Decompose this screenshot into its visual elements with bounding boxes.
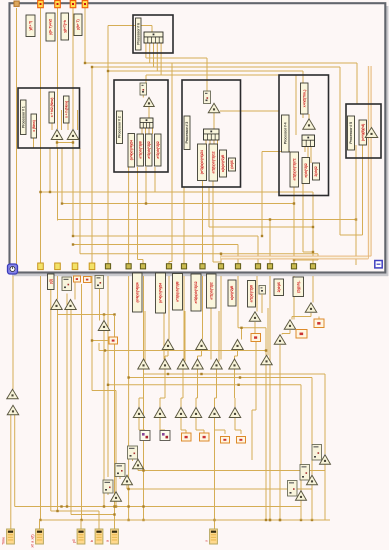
svg-text:a*2(b(xh)*3)/12: a*2(b(xh)*3)/12 bbox=[194, 281, 198, 303]
svg-text:a*2(xh)*2)/8: a*2(xh)*2)/8 bbox=[250, 285, 254, 302]
svg-text:a(b(xh)*2)/8: a(b(xh)*2)/8 bbox=[221, 155, 225, 172]
svg-text:x + h/2 (New): x + h/2 (New) bbox=[50, 97, 54, 117]
svg-text:x+h/2(Tim..): x+h/2(Tim..) bbox=[302, 89, 306, 108]
svg-text:y[i]: y[i] bbox=[49, 279, 53, 284]
svg-text:Processor # 1: Processor # 1 bbox=[21, 106, 25, 128]
svg-text:a*2(b(xh)*3)/12: a*2(b(xh)*3)/12 bbox=[211, 151, 215, 173]
svg-text:(a*4(xh)*4)/24: (a*4(xh)*4)/24 bbox=[159, 283, 163, 303]
svg-text:(a*4(xh)*4)/24: (a*4(xh)*4)/24 bbox=[135, 282, 139, 302]
svg-text:x + h (New): x + h (New) bbox=[64, 100, 68, 118]
svg-text:a*2(xh)*2)/2: a*2(xh)*2)/2 bbox=[209, 282, 213, 299]
svg-text:2(xh)/6: 2(xh)/6 bbox=[277, 282, 281, 292]
svg-text:(a*4(xh)*4)/24: (a*4(xh)*4)/24 bbox=[129, 140, 133, 160]
svg-text:(a*3)(b(xh)*4)/24: (a*3)(b(xh)*4)/24 bbox=[200, 150, 204, 174]
svg-text:y(t+T)+h: y(t+T)+h bbox=[63, 20, 67, 33]
svg-text:Processor # 3: Processor # 3 bbox=[185, 122, 189, 144]
svg-text:Processor # 6: Processor # 6 bbox=[136, 23, 140, 45]
svg-text:x: x bbox=[205, 540, 209, 542]
svg-text:a*2(b(xh)*3)/72: a*2(b(xh)*3)/72 bbox=[292, 158, 296, 180]
svg-text:y0: y0 bbox=[72, 539, 76, 543]
svg-text:a(xh)*2)/8: a(xh)*2)/8 bbox=[230, 286, 234, 300]
svg-text:2(xh)/2: 2(xh)/2 bbox=[314, 166, 318, 176]
svg-text:a*2(xh)*2)/2: a*2(xh)*2)/2 bbox=[156, 141, 160, 158]
svg-text:Time: Time bbox=[2, 537, 6, 545]
svg-text:a*3(b(xh)*3)/8: a*3(b(xh)*3)/8 bbox=[176, 281, 180, 301]
svg-text:x0 a x(t): x0 a x(t) bbox=[31, 534, 35, 547]
svg-text:y(t+ T)+h/2: y(t+ T)+h/2 bbox=[49, 19, 53, 35]
svg-text:y(t+ T): y(t+ T) bbox=[29, 20, 33, 30]
svg-text:y(h+ T): y(h+ T) bbox=[76, 19, 80, 30]
svg-text:x (New): x (New) bbox=[32, 119, 36, 131]
svg-text:Processor # 4: Processor # 4 bbox=[283, 122, 287, 145]
svg-text:b: b bbox=[90, 540, 94, 542]
svg-text:(xh)/6: (xh)/6 bbox=[230, 160, 234, 169]
svg-text:a*2(xh)*2)/2: a*2(xh)*2)/2 bbox=[147, 141, 151, 158]
svg-text:Processor # 5: Processor # 5 bbox=[349, 122, 353, 144]
svg-text:a*3(xh)*3)/8: a*3(xh)*3)/8 bbox=[138, 141, 142, 158]
svg-text:(x+h)(8)(h4): (x+h)(8)(h4) bbox=[361, 123, 365, 141]
svg-text:e(xh)*2)/2: e(xh)*2)/2 bbox=[304, 163, 308, 177]
svg-text:(2g(xh)..: (2g(xh).. bbox=[296, 280, 300, 292]
svg-text:Processor # 2: Processor # 2 bbox=[118, 116, 122, 138]
